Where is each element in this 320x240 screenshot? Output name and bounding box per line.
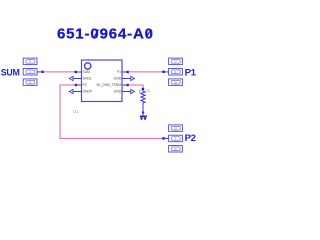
U1 refdes xyxy=(73,109,79,114)
wire SUM to U1 pin SUM xyxy=(43,71,76,73)
ground xyxy=(140,112,147,120)
connector P2 pin 1 (middle) xyxy=(162,135,182,142)
svg-text:P1: P1 xyxy=(185,67,197,78)
U1 pin P1 (right row1) xyxy=(117,70,129,74)
U1 pin GND1 (left row2, arrow) xyxy=(69,76,92,80)
op-amp U1 body xyxy=(82,60,123,102)
svg-text:P2: P2 xyxy=(185,133,196,144)
svg-text:U1: U1 xyxy=(73,109,79,114)
svg-text:GND1: GND1 xyxy=(83,77,92,81)
svg-text:SUM: SUM xyxy=(1,68,20,78)
svg-text:50_OHM_TERM: 50_OHM_TERM xyxy=(97,83,122,87)
title 651-0964-A0 xyxy=(57,25,153,42)
connector SUM pad G (bottom) xyxy=(23,79,37,86)
U1 pin GNDP (left row4, arrow) xyxy=(69,89,93,93)
svg-text:P1: P1 xyxy=(117,70,121,74)
connector P1 pad G (bottom) xyxy=(169,79,183,86)
connector P1 pin 1 (middle) xyxy=(162,69,182,76)
svg-text:651-0964-A0: 651-0964-A0 xyxy=(57,25,153,42)
wire U1 P1 to connector P1 xyxy=(129,71,164,73)
U1 pin GND (right row2, arrow) xyxy=(114,76,135,80)
wire U1 P2 to connector P2 xyxy=(60,85,164,138)
port label SUM xyxy=(1,68,20,78)
U1 pin GND (right row4, arrow) xyxy=(114,89,135,93)
svg-text:GND: GND xyxy=(114,77,122,81)
svg-text:R1: R1 xyxy=(146,89,150,93)
U1 pin 50_OHM_TERM (right row3) xyxy=(97,83,129,87)
svg-text:50: 50 xyxy=(138,89,142,93)
wire U1 50_OHM_TERM to resistor R1 xyxy=(129,85,144,89)
node: junction dot above ground xyxy=(142,111,144,113)
U1 pin P2 (left row3) xyxy=(75,83,87,87)
U1 pin SUM (left row1) xyxy=(75,70,91,74)
connector P2 pad G (top) xyxy=(169,125,183,131)
resistor R1 xyxy=(138,88,150,112)
connector SUM pin 1 (middle) xyxy=(23,69,44,76)
connector P1 pad G (top) xyxy=(169,58,183,65)
port label P2 xyxy=(185,133,196,144)
port label P1 xyxy=(185,67,197,78)
svg-text:SUM: SUM xyxy=(83,70,91,74)
connector SUM pad G (top) xyxy=(23,58,37,65)
svg-text:GNDP: GNDP xyxy=(83,90,93,94)
svg-text:GND: GND xyxy=(114,90,122,94)
svg-text:P2: P2 xyxy=(83,83,87,87)
connector P2 pad G (bottom) xyxy=(169,146,183,153)
